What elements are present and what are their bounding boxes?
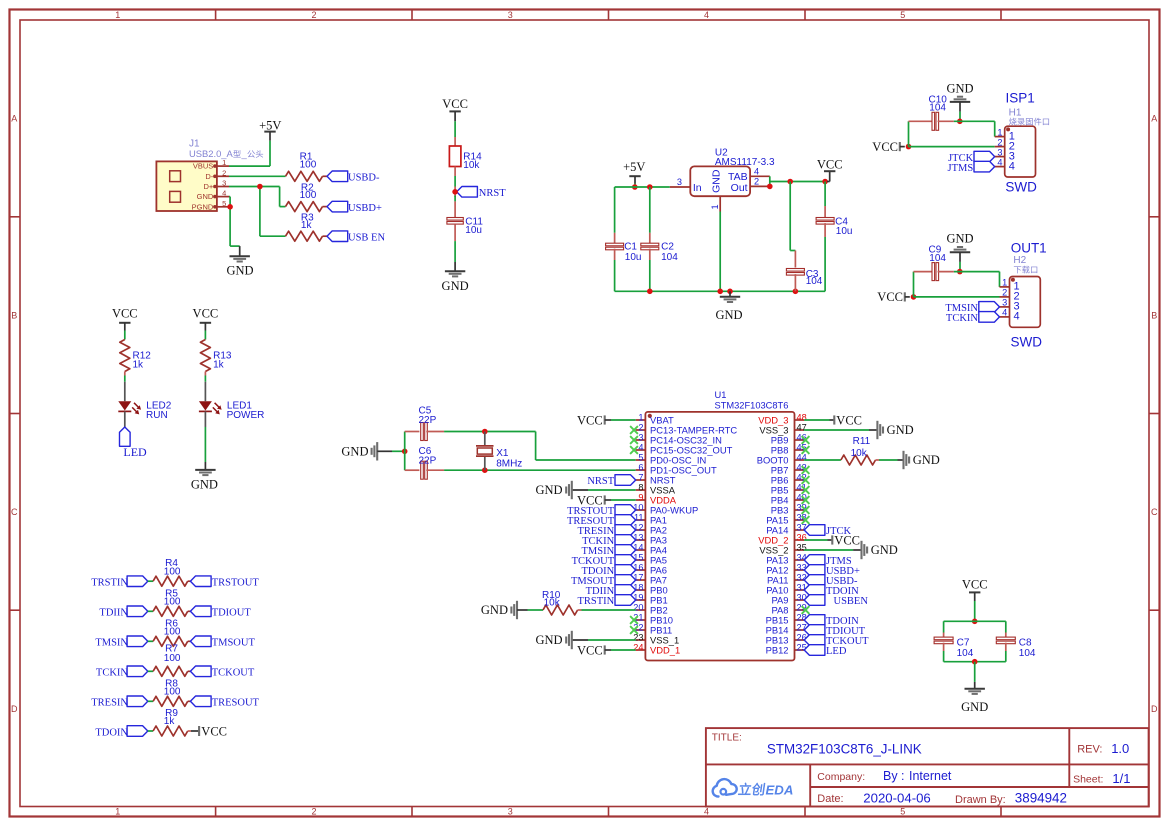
svg-text:Drawn By:: Drawn By: bbox=[955, 794, 1006, 806]
svg-text:H1: H1 bbox=[1009, 107, 1022, 118]
svg-text:5: 5 bbox=[900, 10, 905, 20]
svg-text:A: A bbox=[11, 114, 17, 124]
svg-text:1: 1 bbox=[638, 412, 643, 422]
svg-text:10u: 10u bbox=[465, 225, 482, 236]
svg-text:In: In bbox=[693, 182, 702, 194]
svg-text:GND: GND bbox=[946, 232, 973, 246]
svg-text:USB2.0_A: USB2.0_A bbox=[189, 148, 234, 159]
svg-text:SWD: SWD bbox=[1011, 335, 1043, 350]
svg-text:7: 7 bbox=[638, 472, 643, 482]
svg-text:4: 4 bbox=[1014, 311, 1020, 323]
svg-text:B: B bbox=[1151, 310, 1157, 320]
svg-text:+5V: +5V bbox=[259, 118, 281, 132]
svg-text:Out: Out bbox=[731, 182, 748, 194]
svg-text:GND: GND bbox=[871, 543, 898, 557]
svg-text:VCC: VCC bbox=[836, 413, 862, 427]
svg-text:VCC: VCC bbox=[442, 97, 468, 111]
svg-text:1: 1 bbox=[710, 204, 720, 209]
svg-text:H2: H2 bbox=[1013, 255, 1026, 266]
svg-text:AMS1117-3.3: AMS1117-3.3 bbox=[715, 157, 775, 168]
svg-text:+5V: +5V bbox=[623, 160, 645, 174]
svg-text:POWER: POWER bbox=[227, 410, 265, 421]
svg-text:REV:: REV: bbox=[1077, 743, 1102, 755]
svg-text:GND: GND bbox=[536, 633, 563, 647]
svg-text:NRST: NRST bbox=[587, 476, 614, 487]
svg-text:LED: LED bbox=[123, 445, 147, 459]
svg-text:VCC: VCC bbox=[962, 578, 988, 592]
svg-text:3: 3 bbox=[638, 432, 643, 442]
svg-text:PB12: PB12 bbox=[766, 645, 789, 656]
svg-text:D-: D- bbox=[205, 172, 213, 181]
svg-text:4: 4 bbox=[638, 442, 643, 452]
svg-text:3: 3 bbox=[508, 10, 513, 20]
svg-text:104: 104 bbox=[806, 276, 823, 287]
svg-text:U1: U1 bbox=[715, 390, 727, 400]
svg-text:VBUS: VBUS bbox=[193, 162, 213, 171]
svg-text:VDD_1: VDD_1 bbox=[650, 645, 680, 656]
svg-text:100: 100 bbox=[300, 190, 317, 201]
svg-text:VCC: VCC bbox=[817, 157, 843, 171]
svg-text:4: 4 bbox=[704, 10, 709, 20]
svg-text:8MHz: 8MHz bbox=[496, 459, 522, 470]
svg-text:4: 4 bbox=[754, 166, 759, 176]
svg-text:VCC: VCC bbox=[577, 643, 603, 657]
svg-text:TRESIN: TRESIN bbox=[91, 698, 128, 709]
svg-text:SWD: SWD bbox=[1005, 180, 1037, 195]
svg-text:4: 4 bbox=[222, 189, 226, 198]
svg-text:TCKIN: TCKIN bbox=[946, 313, 978, 324]
svg-text:3894942: 3894942 bbox=[1015, 790, 1067, 805]
svg-text:ISP1: ISP1 bbox=[1006, 90, 1035, 105]
svg-text:100: 100 bbox=[164, 596, 181, 607]
svg-text:2: 2 bbox=[997, 137, 1002, 147]
svg-text:TRSTOUT: TRSTOUT bbox=[212, 578, 260, 589]
svg-text:EDA: EDA bbox=[766, 782, 794, 797]
svg-text:4: 4 bbox=[997, 157, 1002, 167]
svg-text:8: 8 bbox=[638, 482, 643, 492]
svg-text:3: 3 bbox=[677, 177, 682, 187]
svg-text:By: By bbox=[883, 769, 898, 783]
svg-text:TRSTIN: TRSTIN bbox=[577, 596, 614, 607]
svg-text:STM32F103C8T6: STM32F103C8T6 bbox=[715, 400, 789, 410]
svg-text:6: 6 bbox=[638, 462, 643, 472]
svg-text:3: 3 bbox=[508, 807, 513, 817]
svg-text:PGND: PGND bbox=[192, 202, 214, 211]
svg-text:VCC: VCC bbox=[577, 493, 603, 507]
svg-text:GND: GND bbox=[191, 477, 218, 491]
svg-text:USBEN: USBEN bbox=[834, 596, 869, 607]
svg-text:TRSTIN: TRSTIN bbox=[91, 578, 128, 589]
svg-text:1: 1 bbox=[997, 127, 1002, 137]
svg-text:104: 104 bbox=[957, 648, 974, 659]
svg-text:GND: GND bbox=[913, 453, 940, 467]
svg-text:B: B bbox=[11, 310, 17, 320]
svg-text:STM32F103C8T6_J-LINK: STM32F103C8T6_J-LINK bbox=[767, 741, 922, 756]
svg-text:22P: 22P bbox=[419, 455, 437, 466]
svg-text:TCKIN: TCKIN bbox=[96, 668, 128, 679]
svg-text:10k: 10k bbox=[851, 448, 868, 459]
svg-text:GND: GND bbox=[226, 264, 253, 278]
svg-text:100: 100 bbox=[164, 653, 181, 664]
svg-text:GND: GND bbox=[442, 279, 469, 293]
svg-text:A: A bbox=[1151, 114, 1157, 124]
svg-text:4: 4 bbox=[704, 807, 709, 817]
svg-text:X1: X1 bbox=[496, 448, 509, 459]
svg-text:TMSIN: TMSIN bbox=[95, 638, 128, 649]
svg-text:LED: LED bbox=[826, 646, 847, 657]
svg-text:1: 1 bbox=[115, 10, 120, 20]
svg-text:Sheet:: Sheet: bbox=[1073, 774, 1103, 786]
svg-text:100: 100 bbox=[164, 686, 181, 697]
svg-text:2: 2 bbox=[222, 168, 226, 177]
svg-text:104: 104 bbox=[929, 253, 946, 264]
svg-text:GND: GND bbox=[711, 169, 723, 193]
svg-text:10u: 10u bbox=[836, 226, 853, 237]
svg-text:2: 2 bbox=[311, 807, 316, 817]
svg-text:5: 5 bbox=[900, 807, 905, 817]
svg-text:10k: 10k bbox=[463, 160, 480, 171]
svg-text:VCC: VCC bbox=[201, 724, 227, 738]
svg-text:OUT1: OUT1 bbox=[1011, 240, 1047, 255]
svg-text:1k: 1k bbox=[213, 359, 225, 370]
svg-text:100: 100 bbox=[164, 626, 181, 637]
svg-text:2: 2 bbox=[311, 10, 316, 20]
svg-text:10u: 10u bbox=[625, 252, 642, 263]
svg-text:GND: GND bbox=[197, 192, 214, 201]
svg-text:100: 100 bbox=[164, 566, 181, 577]
svg-text:1: 1 bbox=[1002, 278, 1007, 288]
svg-text:GND: GND bbox=[481, 603, 508, 617]
svg-text:USB EN: USB EN bbox=[348, 233, 385, 244]
svg-text:TDOIN: TDOIN bbox=[95, 727, 128, 738]
svg-text:GND: GND bbox=[887, 423, 914, 437]
svg-text:TMSOUT: TMSOUT bbox=[212, 638, 256, 649]
svg-text:GND: GND bbox=[536, 483, 563, 497]
svg-text:VCC: VCC bbox=[834, 533, 860, 547]
svg-text:D: D bbox=[1151, 704, 1158, 714]
svg-text:1k: 1k bbox=[133, 359, 145, 370]
svg-text:1k: 1k bbox=[301, 220, 313, 231]
svg-text:C: C bbox=[11, 507, 18, 517]
svg-text:1.0: 1.0 bbox=[1111, 741, 1129, 756]
svg-text:GND: GND bbox=[946, 81, 973, 95]
svg-text:5: 5 bbox=[638, 452, 643, 462]
svg-text:VCC: VCC bbox=[872, 140, 898, 154]
svg-text:2: 2 bbox=[754, 177, 759, 187]
svg-text:104: 104 bbox=[1019, 648, 1036, 659]
svg-text::: : bbox=[901, 769, 904, 783]
svg-text:TRESOUT: TRESOUT bbox=[212, 698, 260, 709]
svg-text:RUN: RUN bbox=[146, 410, 168, 421]
svg-text:D: D bbox=[11, 704, 18, 714]
svg-text:NRST: NRST bbox=[479, 188, 506, 199]
svg-text:VCC: VCC bbox=[193, 307, 219, 321]
svg-text:3: 3 bbox=[1002, 298, 1007, 308]
svg-text:R11: R11 bbox=[853, 436, 871, 447]
svg-text:JTMS: JTMS bbox=[948, 163, 974, 174]
svg-text:VCC: VCC bbox=[577, 413, 603, 427]
svg-text:1: 1 bbox=[115, 807, 120, 817]
svg-text:TITLE:: TITLE: bbox=[712, 733, 742, 744]
svg-text:USBD-: USBD- bbox=[348, 173, 380, 184]
svg-text:1k: 1k bbox=[164, 716, 176, 727]
svg-text:TDIOUT: TDIOUT bbox=[212, 608, 252, 619]
svg-text:GND: GND bbox=[961, 700, 988, 714]
svg-text:2: 2 bbox=[638, 422, 643, 432]
svg-text:VCC: VCC bbox=[877, 290, 903, 304]
svg-text:9: 9 bbox=[638, 492, 643, 502]
svg-text:100: 100 bbox=[300, 160, 317, 171]
svg-text:GND: GND bbox=[341, 445, 368, 459]
svg-text:TDIIN: TDIIN bbox=[99, 608, 128, 619]
svg-text:USBD+: USBD+ bbox=[348, 203, 382, 214]
svg-text:1: 1 bbox=[222, 158, 226, 167]
svg-text:3: 3 bbox=[222, 179, 226, 188]
svg-text:Internet: Internet bbox=[909, 769, 952, 783]
svg-text:22P: 22P bbox=[419, 415, 437, 426]
svg-text:1/1: 1/1 bbox=[1112, 771, 1130, 786]
svg-text:2020-04-06: 2020-04-06 bbox=[863, 790, 930, 805]
svg-text:GND: GND bbox=[715, 308, 742, 322]
svg-text:5: 5 bbox=[222, 199, 226, 208]
svg-text:104: 104 bbox=[661, 252, 678, 263]
svg-text:3: 3 bbox=[997, 147, 1002, 157]
svg-text:4: 4 bbox=[1009, 160, 1015, 172]
svg-text:Company:: Company: bbox=[817, 771, 865, 783]
svg-text:VCC: VCC bbox=[112, 307, 138, 321]
svg-text:10k: 10k bbox=[544, 598, 561, 609]
svg-text:TCKOUT: TCKOUT bbox=[212, 668, 255, 679]
svg-text:2: 2 bbox=[1002, 288, 1007, 298]
svg-text:_: _ bbox=[241, 148, 248, 159]
svg-text:C: C bbox=[1151, 507, 1158, 517]
svg-text:D+: D+ bbox=[204, 182, 214, 191]
svg-text:4: 4 bbox=[1002, 308, 1007, 318]
svg-text:104: 104 bbox=[929, 103, 946, 114]
svg-text:Date:: Date: bbox=[817, 793, 843, 805]
